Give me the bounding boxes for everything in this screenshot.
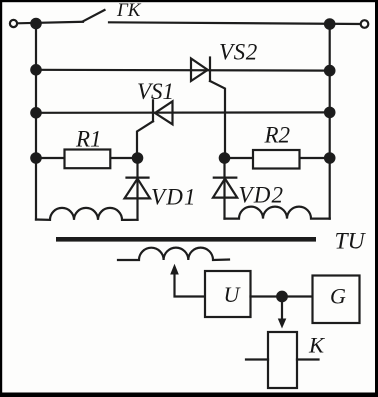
wire arrow node to relay K: [278, 297, 287, 329]
terminal right: [361, 20, 369, 28]
wire rail 4 left branch: [36, 157, 138, 159]
wire rail1 right segment: [109, 22, 361, 24]
wire VD2 branch vertical: [223, 158, 225, 219]
wire rail 3: [36, 111, 330, 114]
svg-text:U: U: [224, 282, 242, 307]
svg-text:VS1: VS1: [137, 79, 174, 104]
thyristor VS2: [191, 58, 210, 82]
svg-text:VD1: VD1: [151, 185, 197, 210]
inductor left primary winding: [36, 208, 138, 220]
diode VD2: [213, 178, 237, 198]
diode VD1: [125, 178, 151, 199]
svg-text:VS2: VS2: [219, 40, 258, 65]
junction dot VS2 gate node: [220, 153, 229, 162]
svg-text:К: К: [308, 333, 325, 358]
svg-text:TU: TU: [335, 229, 367, 255]
wire rail 4 right branch: [225, 157, 330, 159]
block U: [205, 271, 251, 317]
wire VS1 gate: [137, 121, 153, 158]
junction node dot: [277, 292, 287, 302]
wire VS2 gate: [210, 81, 225, 158]
block G: [313, 276, 360, 324]
junction dot left rail3: [31, 108, 40, 117]
svg-text:ГК: ГК: [116, 0, 142, 21]
junction dot left rail1: [31, 19, 40, 28]
wire secondary sense arrow to U: [170, 264, 205, 297]
junction dot right rail1: [325, 19, 334, 28]
junction dot left rail4: [31, 153, 40, 162]
wire rail1 left segment: [17, 22, 83, 24]
resistor R1: [65, 150, 111, 169]
terminal left: [10, 20, 17, 27]
relay K: [246, 332, 319, 388]
wire left bus vertical: [35, 24, 37, 220]
junction dot right rail3: [325, 108, 334, 117]
junction dot VS1 gate node: [133, 153, 142, 162]
junction dot right rail4: [325, 153, 334, 162]
wire VD1 branch vertical: [136, 158, 138, 220]
svg-text:R2: R2: [264, 123, 291, 148]
junction dot right rail2: [325, 66, 334, 75]
wire node to G: [282, 295, 312, 297]
svg-text:R1: R1: [75, 127, 102, 152]
wire U to node: [251, 295, 283, 297]
junction dot left rail2: [31, 65, 40, 74]
inductor right primary winding: [225, 207, 330, 219]
thyristor VS1: [153, 100, 173, 124]
switch GK blade: [83, 10, 105, 21]
transformer TU core: [56, 237, 316, 242]
resistor R2: [253, 150, 300, 169]
svg-text:VD2: VD2: [239, 183, 285, 208]
wire right bus vertical: [329, 24, 331, 219]
wire rail 2: [36, 69, 330, 72]
inductor secondary winding: [118, 248, 229, 260]
svg-text:G: G: [330, 284, 346, 309]
